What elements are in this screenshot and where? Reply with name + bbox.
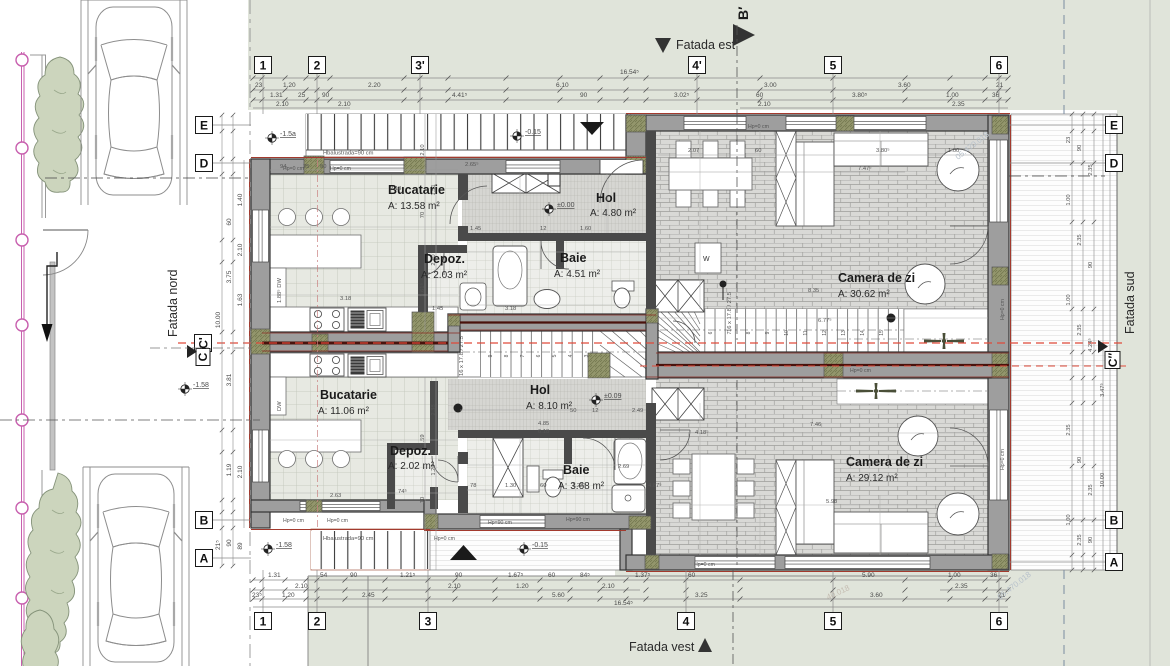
svg-text:-1.58: -1.58 <box>193 382 209 389</box>
wc2 bath U1 <box>460 283 486 310</box>
property line magenta <box>22 52 25 666</box>
svg-text:E: E <box>1110 118 1118 132</box>
door bath U1 <box>541 241 569 269</box>
svg-text:36: 36 <box>990 572 998 579</box>
window kitchen U2 west <box>253 430 269 482</box>
grid 2 axis dashed <box>317 160 319 530</box>
door terrace U2 east <box>950 428 988 466</box>
side table U1 <box>905 264 945 304</box>
lot boundary dash x250 <box>249 0 251 666</box>
partition depoz U1 north <box>418 245 467 253</box>
grid letters left <box>196 117 213 134</box>
partition kitchen-hol U1 upper <box>458 174 468 200</box>
car parking top <box>81 0 187 205</box>
svg-text:1.20: 1.20 <box>516 583 529 590</box>
svg-text:Hp=90 cm: Hp=90 cm <box>566 517 590 523</box>
bath U1 floor <box>467 240 646 314</box>
svg-text:B: B <box>1110 513 1119 527</box>
fence line upper <box>42 55 46 218</box>
door kitchen U2 <box>432 456 458 482</box>
window living U1 north A <box>684 117 746 130</box>
svg-text:4.87⁵: 4.87⁵ <box>648 482 662 489</box>
bath U2 floor <box>467 438 646 514</box>
svg-text:5: 5 <box>552 354 558 357</box>
svg-text:Hol: Hol <box>530 383 550 397</box>
partition bath U2 inner <box>564 438 572 464</box>
party wall jog A <box>448 314 460 352</box>
window living U2 south B <box>785 557 930 569</box>
svg-text:60: 60 <box>755 148 761 154</box>
svg-text:15: 15 <box>879 330 885 336</box>
entrance arrow U1 <box>580 122 604 135</box>
svg-text:3': 3' <box>415 58 425 72</box>
svg-text:6.18: 6.18 <box>538 429 549 435</box>
svg-text:3.60: 3.60 <box>898 82 911 89</box>
svg-text:2.35: 2.35 <box>1077 324 1083 335</box>
svg-text:7.46: 7.46 <box>810 422 821 428</box>
door kitchen U1 <box>450 186 487 224</box>
svg-text:4.85: 4.85 <box>538 421 549 427</box>
lot boundary dash x1064 <box>1063 0 1065 666</box>
svg-text:A: 11.06 m²: A: 11.06 m² <box>318 406 370 417</box>
door depoz U1 <box>422 253 444 275</box>
svg-text:6: 6 <box>996 58 1003 72</box>
axis D dashed <box>45 176 1105 178</box>
svg-text:90: 90 <box>1077 457 1083 463</box>
svg-text:Bucatarie: Bucatarie <box>320 388 377 402</box>
svg-text:78: 78 <box>470 483 476 489</box>
east terrace deck <box>1011 114 1117 570</box>
partition hol-bath U1 <box>458 233 646 241</box>
svg-text:16.54⁵: 16.54⁵ <box>620 69 639 76</box>
svg-text:54: 54 <box>320 572 328 579</box>
window kitchen U2 south <box>300 502 380 511</box>
grid letters C left rotated <box>195 335 212 352</box>
lot edge lines bottom <box>308 576 1008 666</box>
window kitchen U1 west <box>253 210 269 262</box>
svg-text:1.22⁵: 1.22⁵ <box>572 482 586 489</box>
depoz U1 floor <box>418 245 467 332</box>
svg-text:9: 9 <box>765 331 771 334</box>
window hol U1 north <box>506 161 560 173</box>
structural columns <box>304 156 324 174</box>
svg-text:16.54⁵: 16.54⁵ <box>614 600 633 607</box>
kitchen U2 sink <box>348 354 386 377</box>
svg-text:3.18: 3.18 <box>340 296 351 302</box>
svg-text:60: 60 <box>756 92 764 99</box>
svg-text:2.10: 2.10 <box>295 583 308 590</box>
svg-text:23: 23 <box>1066 137 1072 143</box>
svg-text:1.20: 1.20 <box>282 592 295 599</box>
svg-text:90: 90 <box>1088 262 1094 268</box>
svg-text:36: 36 <box>992 92 1000 99</box>
tree 1 <box>34 57 84 192</box>
bath U1 wc <box>612 281 634 291</box>
svg-text:12: 12 <box>822 330 828 336</box>
partition living-hall U1 <box>646 131 656 309</box>
svg-text:10: 10 <box>420 497 426 503</box>
dining table U1 <box>669 141 752 207</box>
right edge line <box>1149 0 1151 666</box>
svg-text:2.18: 2.18 <box>390 186 401 192</box>
svg-text:Hp=0 cm: Hp=0 cm <box>283 518 304 524</box>
interior dim rows <box>270 155 986 490</box>
party wall core lines <box>262 342 448 345</box>
bath U1 tub <box>493 246 527 306</box>
level marker -0.15 south terrace <box>520 545 528 553</box>
svg-text:23: 23 <box>255 82 263 89</box>
kitchen U1 dw column <box>269 268 286 307</box>
svg-text:1.45: 1.45 <box>432 306 443 312</box>
south jog wall living U2 <box>620 529 632 570</box>
level marker -1.58 bottom <box>264 545 272 553</box>
svg-text:A: 4.80 m²: A: 4.80 m² <box>590 208 637 219</box>
svg-text:2.10: 2.10 <box>448 583 461 590</box>
svg-text:1.30: 1.30 <box>505 483 516 489</box>
grid line stubs <box>213 74 1105 612</box>
svg-text:50: 50 <box>570 408 576 414</box>
gate swing arc <box>43 230 88 275</box>
svg-text:10.00: 10.00 <box>215 311 222 328</box>
svg-text:2.10: 2.10 <box>237 465 244 478</box>
stair U1 winders <box>658 309 700 352</box>
washer niche U1 <box>695 243 721 273</box>
party wall east segment <box>646 352 1009 378</box>
svg-text:90: 90 <box>1077 145 1083 151</box>
svg-text:11: 11 <box>803 330 809 335</box>
svg-text:4.41⁵: 4.41⁵ <box>452 92 468 99</box>
kitchen U1 stools <box>279 209 350 226</box>
svg-text:E: E <box>200 118 208 132</box>
svg-text:Hbalustrada=90 cm: Hbalustrada=90 cm <box>323 151 374 157</box>
svg-text:1.60: 1.60 <box>580 226 591 232</box>
north wall right block <box>626 115 1009 131</box>
level marker -0.15 top terrace <box>513 132 521 140</box>
svg-text:2.63: 2.63 <box>330 493 341 499</box>
svg-text:2.20: 2.20 <box>368 82 381 89</box>
svg-text:A: 4.51 m²: A: 4.51 m² <box>554 269 601 280</box>
svg-text:3.81: 3.81 <box>226 373 233 386</box>
window bath U2 south <box>480 516 545 528</box>
fence line lower <box>41 470 43 666</box>
red axis dashed <box>178 342 1126 344</box>
wardrobe U1 <box>652 280 704 312</box>
svg-text:±0.09: ±0.09 <box>604 393 622 400</box>
svg-text:8.35: 8.35 <box>808 288 819 294</box>
door hol entry U1 <box>600 160 643 203</box>
hol U2 floor <box>448 379 646 430</box>
svg-text:90: 90 <box>322 92 330 99</box>
svg-text:Hp=0 cm: Hp=0 cm <box>1000 299 1006 320</box>
stair U1 rail line <box>903 309 905 352</box>
living U2 floor <box>656 379 988 555</box>
svg-text:25: 25 <box>298 92 306 99</box>
grid letters C right rotated <box>1105 352 1120 369</box>
svg-text:5.90: 5.90 <box>862 572 875 579</box>
svg-text:Hp=0 cm: Hp=0 cm <box>850 368 871 374</box>
fatada est <box>655 38 671 53</box>
svg-text:7: 7 <box>520 354 526 357</box>
svg-text:5: 5 <box>830 58 837 72</box>
level marker -1.58 left <box>181 385 189 393</box>
svg-text:Depoz.: Depoz. <box>424 252 465 266</box>
level marker -1.58 top <box>268 134 276 142</box>
party wall west segment <box>251 332 460 352</box>
south jog wall small <box>424 500 436 529</box>
door hol U2 entry <box>673 321 695 343</box>
svg-text:3.80⁵: 3.80⁵ <box>852 92 868 99</box>
svg-text:DW: DW <box>277 401 283 411</box>
svg-text:-1.58: -1.58 <box>276 542 292 549</box>
svg-text:-1.5a: -1.5a <box>280 131 296 138</box>
partition depoz U2 east <box>430 381 438 455</box>
south wall kitchen U2 <box>251 500 430 512</box>
svg-text:Hp=0 cm: Hp=0 cm <box>748 124 769 130</box>
partition bath U1 inner <box>556 241 564 269</box>
svg-text:A: A <box>1110 555 1119 569</box>
west wall <box>251 159 270 528</box>
svg-text:3.80⁵: 3.80⁵ <box>876 147 890 154</box>
svg-text:Fatada vest: Fatada vest <box>629 640 695 654</box>
section line B vertical <box>732 570 734 666</box>
svg-text:3.47⁵: 3.47⁵ <box>1099 383 1106 397</box>
svg-text:6.77⁵: 6.77⁵ <box>818 317 832 324</box>
closet hol U1 <box>492 173 560 193</box>
east wall <box>988 115 1009 570</box>
bath U2 shower <box>612 485 645 512</box>
svg-text:8: 8 <box>504 354 510 357</box>
svg-text:60: 60 <box>548 572 556 579</box>
svg-text:3.02⁵: 3.02⁵ <box>674 92 690 99</box>
kitchen U2 stools <box>279 451 350 468</box>
svg-text:6: 6 <box>536 354 542 357</box>
entrance arrow U2 <box>450 545 477 560</box>
mid dim chain <box>425 114 436 570</box>
green band bottom right <box>615 570 1170 666</box>
svg-text:3.75: 3.75 <box>226 270 233 283</box>
svg-text:2.10: 2.10 <box>276 101 289 108</box>
right dim chains <box>1072 114 1094 570</box>
svg-text:2.35: 2.35 <box>1088 164 1094 175</box>
east porch wall junction <box>626 115 646 174</box>
svg-text:5.60: 5.60 <box>552 592 565 599</box>
svg-text:Baie: Baie <box>560 251 586 265</box>
svg-text:1.00: 1.00 <box>948 572 961 579</box>
svg-text:1.61⁵: 1.61⁵ <box>419 283 426 297</box>
kitchen U1 sink <box>348 308 386 331</box>
kitchen U2 stove <box>310 354 344 376</box>
svg-text:W: W <box>703 256 710 263</box>
svg-text:1.37⁵: 1.37⁵ <box>635 572 651 579</box>
svg-text:2.35: 2.35 <box>1077 534 1083 545</box>
svg-text:2.10: 2.10 <box>602 583 615 590</box>
svg-text:10: 10 <box>784 330 790 336</box>
svg-text:74⁵: 74⁵ <box>398 488 407 495</box>
bottom dimension lines <box>253 580 1008 607</box>
side table U2 <box>898 416 938 456</box>
kitchen U1 stove <box>310 308 344 331</box>
svg-text:10.00: 10.00 <box>1100 473 1106 488</box>
svg-text:Fatada nord: Fatada nord <box>166 270 180 337</box>
bath U2 sink <box>527 466 539 492</box>
svg-text:4': 4' <box>692 58 702 72</box>
axis C dashed left <box>150 347 251 349</box>
south terrace balusters part <box>311 529 430 570</box>
svg-text:-0.15: -0.15 <box>525 129 541 136</box>
svg-text:2.69: 2.69 <box>618 464 629 470</box>
svg-text:1.67⁵: 1.67⁵ <box>508 572 524 579</box>
svg-text:4.18⁵: 4.18⁵ <box>695 429 709 436</box>
ceiling fan U2 <box>856 383 896 399</box>
svg-text:70: 70 <box>420 212 426 218</box>
svg-text:2.10: 2.10 <box>338 101 351 108</box>
svg-text:2.35: 2.35 <box>952 101 965 108</box>
svg-text:A: 30.62 m²: A: 30.62 m² <box>838 289 890 300</box>
svg-text:1.20: 1.20 <box>283 82 296 89</box>
partition depoz U2 north <box>387 443 438 450</box>
grid bubbles top <box>255 57 272 74</box>
svg-text:2.10: 2.10 <box>758 101 771 108</box>
sofa U2 <box>776 460 796 555</box>
svg-text:Hp=0 cm: Hp=0 cm <box>330 166 351 172</box>
partition kitchen-hol U1 lower <box>458 226 468 238</box>
gate leaf <box>43 229 88 231</box>
svg-text:1.31: 1.31 <box>268 572 281 579</box>
window living U1 east <box>990 140 1008 222</box>
svg-text:21⁵: 21⁵ <box>215 540 222 550</box>
svg-text:3.00: 3.00 <box>764 82 777 89</box>
svg-text:Hbalustrada=90 cm: Hbalustrada=90 cm <box>323 536 374 542</box>
partition kitchen-hol U2 lower <box>458 486 468 513</box>
sofa U1 <box>776 131 796 226</box>
ceiling fan U1 <box>924 333 964 349</box>
kitchen U2 counter <box>270 353 458 377</box>
door terrace U1 east <box>950 226 988 264</box>
svg-text:4.24⁵: 4.24⁵ <box>1087 338 1094 352</box>
svg-text:16 x 17.8 / 27.5: 16 x 17.8 / 27.5 <box>727 292 733 332</box>
svg-text:4: 4 <box>568 354 574 357</box>
red facade lines <box>250 114 1011 572</box>
svg-text:3.25: 3.25 <box>695 592 708 599</box>
green site band top <box>248 0 1170 110</box>
south wall bath U2 block <box>424 514 651 529</box>
svg-text:90: 90 <box>350 572 358 579</box>
svg-text:Hp=0 cm: Hp=0 cm <box>1000 449 1006 470</box>
svg-text:3.18: 3.18 <box>505 306 516 312</box>
stair U1 band <box>658 309 988 352</box>
svg-text:1.40: 1.40 <box>237 193 244 206</box>
stair U2 band <box>458 331 656 377</box>
kitchen U2 floor <box>270 354 458 500</box>
svg-text:84⁵: 84⁵ <box>580 572 590 579</box>
svg-text:B: B <box>200 513 209 527</box>
svg-text:Camera de zi: Camera de zi <box>846 455 923 469</box>
svg-text:1: 1 <box>260 58 267 72</box>
svg-text:90: 90 <box>1088 537 1094 543</box>
svg-text:1.45: 1.45 <box>470 226 481 232</box>
fence wall mid <box>50 262 55 470</box>
svg-text:D: D <box>1110 156 1119 170</box>
window living U2 east <box>990 410 1008 500</box>
axis left lower dashed <box>0 419 260 421</box>
svg-text:60: 60 <box>540 483 546 489</box>
svg-text:60: 60 <box>688 572 696 579</box>
bath U2 tub <box>614 439 646 484</box>
svg-text:8: 8 <box>746 331 752 334</box>
party wall mid segment <box>448 314 656 331</box>
round table U2 <box>937 493 979 535</box>
svg-text:4: 4 <box>683 614 690 628</box>
svg-text:C: C <box>196 352 210 361</box>
kitchen U2 dw column <box>269 377 286 415</box>
svg-text:-0.15: -0.15 <box>532 542 548 549</box>
svg-text:2.35: 2.35 <box>955 583 968 590</box>
door opening hol U1 north <box>600 160 643 174</box>
grid bubbles bottom <box>255 613 272 630</box>
closet U2 bath <box>493 438 523 497</box>
extra olive columns party wall <box>312 334 328 352</box>
svg-text:Hol: Hol <box>596 191 616 205</box>
void band U2 <box>837 379 988 404</box>
svg-text:2.10: 2.10 <box>237 243 244 256</box>
red party wall lines <box>262 315 1009 377</box>
kitchen U1 counter <box>270 307 458 332</box>
svg-text:6: 6 <box>708 331 714 334</box>
dining table U2 <box>673 454 754 520</box>
north terrace deck <box>306 114 630 157</box>
svg-text:2.07: 2.07 <box>688 148 699 154</box>
window kitchen U1 north <box>330 161 404 173</box>
interior hairlines <box>270 227 988 505</box>
door depoz U2 <box>438 460 458 480</box>
stair U1 down marker <box>720 281 727 288</box>
svg-text:1: 1 <box>260 614 267 628</box>
svg-text:C″: C″ <box>1106 353 1120 368</box>
svg-text:A: 8.10 m²: A: 8.10 m² <box>526 401 573 412</box>
bath U1 sink <box>534 290 560 309</box>
partition depoz U2 west <box>387 443 395 509</box>
svg-text:Hp=0 cm: Hp=0 cm <box>694 562 715 568</box>
kitchen U2 island <box>269 420 361 452</box>
north wall left block <box>251 159 646 174</box>
svg-text:90: 90 <box>455 572 463 579</box>
left dim chains <box>222 115 244 566</box>
tree 3 bottom corner <box>21 610 59 666</box>
svg-text:2.38: 2.38 <box>431 404 437 415</box>
depoz U2 floor <box>391 445 438 507</box>
section C flag left <box>187 345 197 358</box>
green band bottom left <box>308 576 615 666</box>
svg-text:1.00: 1.00 <box>1066 294 1072 305</box>
partition kitchen-hol U2 upper <box>458 452 468 464</box>
svg-text:Hp=0 cm: Hp=0 cm <box>434 536 455 542</box>
svg-text:14: 14 <box>860 330 866 336</box>
south terrace deck part <box>430 529 626 570</box>
svg-text:21: 21 <box>996 82 1004 89</box>
svg-text:Camera de zi: Camera de zi <box>838 271 915 285</box>
grid letters right <box>1106 117 1123 134</box>
stair U2 newel dot <box>454 404 463 413</box>
svg-text:3.60: 3.60 <box>870 592 883 599</box>
svg-text:2.65⁵: 2.65⁵ <box>465 161 479 168</box>
svg-text:12: 12 <box>592 408 598 414</box>
svg-text:3: 3 <box>425 614 432 628</box>
svg-text:60: 60 <box>226 218 233 226</box>
svg-text:90: 90 <box>580 92 588 99</box>
svg-text:1.19: 1.19 <box>226 463 233 476</box>
svg-text:1.63: 1.63 <box>237 293 244 306</box>
svg-text:5.98: 5.98 <box>826 499 837 505</box>
